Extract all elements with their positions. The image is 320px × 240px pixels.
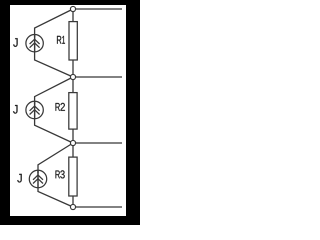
wire: node A diagonal to current source J1 top lead: [35, 9, 73, 37]
wire: node B to right edge stub: [73, 76, 122, 78]
label J (source J3): [17, 174, 21, 183]
label R3: [56, 170, 65, 178]
wire: current source J3 through-line and bottom lead diagonal to node D: [38, 170, 73, 207]
wire: node D to right edge stub: [73, 206, 122, 208]
current source J1: [26, 35, 43, 52]
node B: [70, 74, 75, 79]
label R2: [56, 103, 65, 111]
label J (source J1): [13, 38, 17, 47]
node A: [70, 6, 75, 11]
wire: node B diagonal to current source J2 top lead: [35, 77, 73, 104]
wire: node C down to resistor R3 top: [72, 143, 74, 157]
label J (source J2): [13, 105, 17, 114]
wire: current source J2 through-line and bottom lead diagonal to node C: [35, 101, 73, 143]
current source J3: [29, 170, 46, 187]
border frame top: [0, 0, 140, 5]
wire: resistor R2 bottom to node C: [72, 129, 74, 143]
resistor R2: [69, 93, 77, 130]
wire: resistor R1 bottom to node B: [72, 60, 74, 77]
node D: [70, 204, 75, 209]
wire: current source J1 through-line and bottom lead diagonal to node B: [35, 34, 73, 77]
resistor R3: [69, 157, 77, 196]
resistor R1: [69, 22, 77, 60]
node C: [70, 140, 75, 145]
wire: node C to right edge stub: [73, 142, 122, 144]
label R1: [57, 36, 65, 44]
current source J2: [26, 101, 43, 118]
border frame left: [0, 0, 10, 225]
wire: node B down to resistor R2 top: [72, 77, 74, 93]
border frame right: [126, 0, 140, 225]
wire: node A to right edge stub: [73, 8, 122, 10]
wire: node A down to resistor R1 top: [72, 9, 74, 22]
wire: node C diagonal to current source J3 top lead: [38, 143, 73, 173]
border frame bottom: [0, 216, 140, 225]
wire: resistor R3 bottom to node D: [72, 196, 74, 207]
